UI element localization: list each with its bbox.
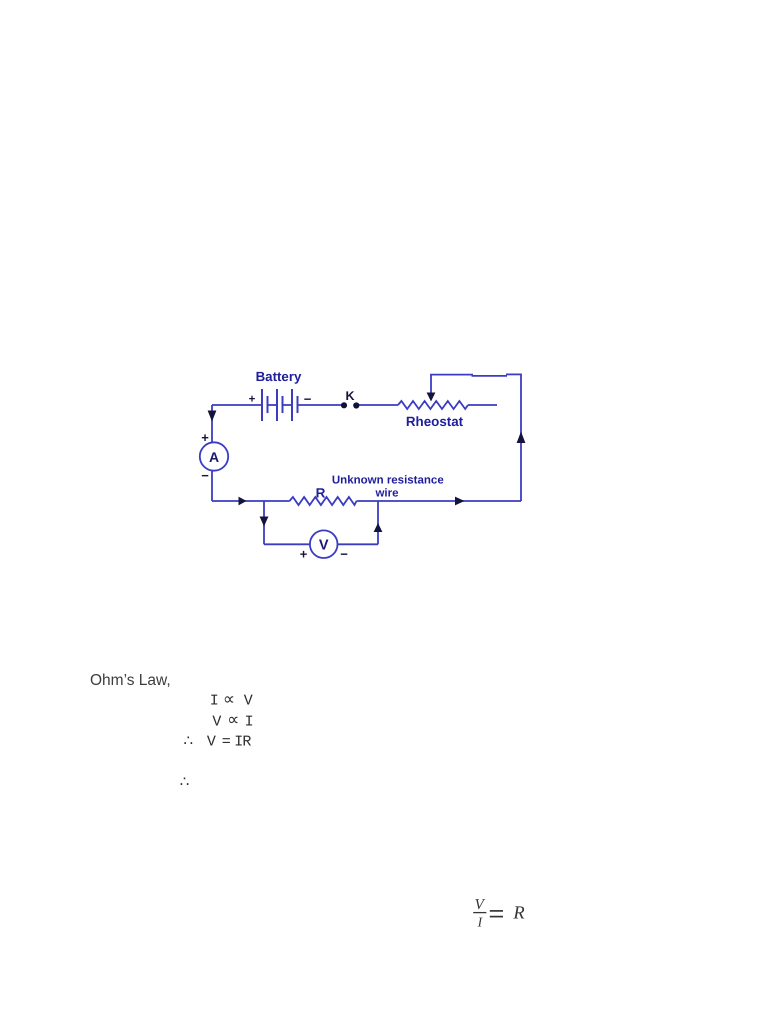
svg-text:R: R xyxy=(512,904,524,924)
svg-text:∝: ∝ xyxy=(227,712,239,731)
svg-text:V: V xyxy=(475,897,486,913)
svg-text:Unknown resistance: Unknown resistance xyxy=(332,474,444,486)
svg-text:+: + xyxy=(300,547,308,562)
wire: voltmeter branch right vertical xyxy=(377,501,379,544)
wire: top battery row from left corner to first plate xyxy=(212,404,262,406)
heading: Ohm's Law, xyxy=(90,672,171,690)
wire: rheostat wiper vertical xyxy=(430,375,432,395)
battery cells (3 cells: long/short plates) xyxy=(262,389,298,421)
arrow: voltmeter branch up (right) xyxy=(374,523,383,532)
svg-text:I: I xyxy=(245,713,254,730)
arrow: current direction right on bottom wire (left) xyxy=(239,497,247,506)
svg-text:V: V xyxy=(207,734,216,751)
svg-text:−: − xyxy=(201,468,209,483)
svg-text:I: I xyxy=(477,914,484,929)
svg-text:+: + xyxy=(249,394,256,406)
rheostat zigzag body xyxy=(398,401,468,409)
wire: left vertical (battery + to ammeter to bottom) xyxy=(211,405,213,501)
svg-text:∴: ∴ xyxy=(184,734,194,751)
arrow: current direction up on right wire xyxy=(517,432,526,444)
svg-text:Battery: Battery xyxy=(256,369,302,384)
svg-text:−: − xyxy=(304,392,312,407)
wire: bottom row right of R xyxy=(357,500,522,502)
arrow: voltmeter branch down (left) xyxy=(260,517,269,527)
wire: between battery cells xyxy=(268,404,278,406)
svg-text:V: V xyxy=(212,713,221,730)
svg-text:wire: wire xyxy=(374,488,398,500)
svg-text:R: R xyxy=(242,734,251,751)
arrow: rheostat wiper pointing down xyxy=(427,393,436,402)
ammeter A (circle) xyxy=(200,442,228,470)
voltmeter V (circle) xyxy=(310,530,338,558)
svg-text:Rheostat: Rheostat xyxy=(406,414,464,429)
equals sign xyxy=(490,910,503,912)
equation: I prop V xyxy=(210,691,253,710)
svg-text:V: V xyxy=(319,538,329,554)
wire: key K to rheostat xyxy=(358,404,398,406)
wire: battery to key K xyxy=(298,404,343,406)
svg-text:−: − xyxy=(340,547,348,562)
arrow: current direction right on bottom wire (right) xyxy=(455,497,465,506)
equation: therefore V = IR xyxy=(184,734,252,751)
wire: voltmeter branch left vertical xyxy=(263,501,265,544)
svg-text:A: A xyxy=(209,449,219,465)
arrow: current direction down on left wire xyxy=(208,411,217,422)
resistor R zigzag (unknown resistance wire) xyxy=(290,497,357,505)
svg-text:∝: ∝ xyxy=(223,691,235,710)
wire: bottom row xyxy=(212,500,290,502)
svg-text:V: V xyxy=(244,693,253,710)
wire: right vertical xyxy=(520,375,522,502)
svg-text:∴: ∴ xyxy=(180,773,190,790)
svg-text:R: R xyxy=(316,486,326,501)
wire: voltmeter bottom row xyxy=(264,543,378,545)
svg-text:=: = xyxy=(222,734,231,751)
key K contact dots xyxy=(341,402,347,408)
svg-text:K: K xyxy=(345,389,354,403)
wire: rheostat right lead (open end) xyxy=(468,404,497,406)
equation: V prop I xyxy=(212,712,253,731)
svg-text:+: + xyxy=(201,430,209,445)
svg-text:I: I xyxy=(210,693,219,710)
wire: top link wiper to right corner (wavy scan line) xyxy=(430,374,473,376)
fraction bar xyxy=(473,912,486,914)
